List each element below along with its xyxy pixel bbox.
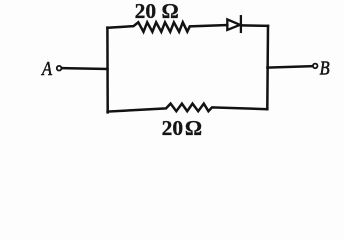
svg-text:B: B bbox=[320, 57, 330, 79]
svg-text:20Ω: 20Ω bbox=[162, 116, 203, 139]
svg-text:20 Ω: 20 Ω bbox=[135, 0, 179, 23]
svg-text:A: A bbox=[40, 58, 52, 80]
